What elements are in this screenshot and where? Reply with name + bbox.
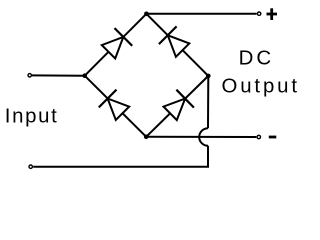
wire hop over - output wire (199, 128, 208, 146)
node left (junction dot) (82, 73, 87, 78)
diode D4 (B to R) (164, 99, 186, 121)
node bottom (junction dot) (144, 135, 149, 140)
wire bridge side L-B (85, 76, 147, 137)
terminal input upper (open circle) (28, 74, 31, 77)
svg-text:Input: Input (5, 105, 57, 127)
svg-text:Output: Output (222, 76, 298, 98)
diode D3 (B to L) (108, 99, 130, 121)
wire bridge side B-R (146, 76, 208, 137)
terminal output - (open circle) (257, 135, 260, 138)
wire bottom output: bottom node to - terminal (146, 136, 256, 138)
wire bridge side L-T (85, 14, 147, 76)
wire right vertical lower and bottom return to input (33, 146, 208, 167)
diode D1 (L to T) (102, 37, 124, 59)
diode D2 (R to T) (168, 35, 190, 57)
wire right vertical upper: right node down to hop (207, 76, 209, 128)
label + symbol (267, 13, 278, 16)
node right (junction dot) (206, 74, 211, 79)
wire bridge side T-R (146, 14, 208, 76)
terminal input lower (open circle) (29, 165, 32, 168)
label - symbol (269, 136, 277, 139)
wire input upper: left terminal to left node (32, 74, 85, 76)
terminal output + (open circle) (257, 12, 260, 15)
wire top output: top node to + terminal (146, 13, 256, 15)
node top (junction dot) (144, 12, 149, 17)
